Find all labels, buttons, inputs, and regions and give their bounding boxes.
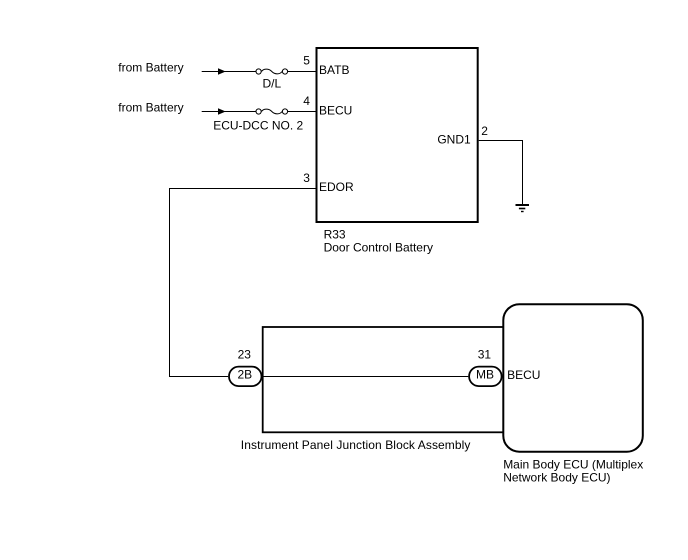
svg-text:5: 5 (303, 53, 310, 67)
svg-text:BECU: BECU (319, 103, 352, 117)
svg-text:23: 23 (238, 347, 252, 361)
wire: battery feed to fuse ECU-DCC NO. 2 with arrowhead (202, 108, 256, 114)
svg-text:MB: MB (476, 367, 494, 381)
wire: fuse D/L to pin BATB (288, 71, 317, 73)
svg-text:3: 3 (303, 171, 310, 185)
svg-text:Instrument Panel Junction Bloc: Instrument Panel Junction Block Assembly (241, 438, 471, 452)
fuse D/L (256, 69, 288, 74)
wire: connector 2B to connector MB inside junction block (262, 376, 468, 378)
svg-text:GND1: GND1 (437, 133, 471, 147)
ground (516, 205, 530, 212)
fuse ECU-DCC NO. 2 (256, 109, 288, 114)
ECU block R33 Door Control Battery (317, 48, 478, 222)
svg-text:31: 31 (478, 347, 492, 361)
connector 2B (229, 367, 262, 387)
Main Body ECU block (rounded) (503, 304, 643, 452)
svg-text:BATB: BATB (319, 63, 349, 77)
connector MB (469, 367, 502, 387)
svg-text:Network Body ECU): Network Body ECU) (503, 470, 610, 484)
wire: EDOR pin to junction block connector 2B (170, 189, 317, 377)
svg-text:4: 4 (303, 94, 310, 108)
wire: fuse ECU-DCC NO. 2 to pin BECU (288, 111, 317, 113)
junction block box (Instrument Panel Junction Block Assembly) (263, 327, 508, 432)
svg-text:R33: R33 (324, 227, 346, 241)
svg-text:from Battery: from Battery (118, 101, 183, 115)
svg-text:BECU: BECU (507, 368, 540, 382)
svg-text:Main Body ECU (Multiplex: Main Body ECU (Multiplex (503, 457, 643, 471)
svg-text:ECU-DCC NO. 2: ECU-DCC NO. 2 (213, 118, 303, 132)
svg-text:Door Control Battery: Door Control Battery (324, 241, 433, 255)
svg-text:2: 2 (481, 124, 488, 138)
svg-text:EDOR: EDOR (319, 180, 354, 194)
wire: battery feed to fuse D/L with arrowhead (202, 68, 256, 74)
svg-text:from Battery: from Battery (118, 61, 183, 75)
wire: GND1 pin to ground (479, 141, 523, 205)
svg-text:2B: 2B (237, 368, 252, 382)
svg-text:D/L: D/L (263, 77, 282, 91)
